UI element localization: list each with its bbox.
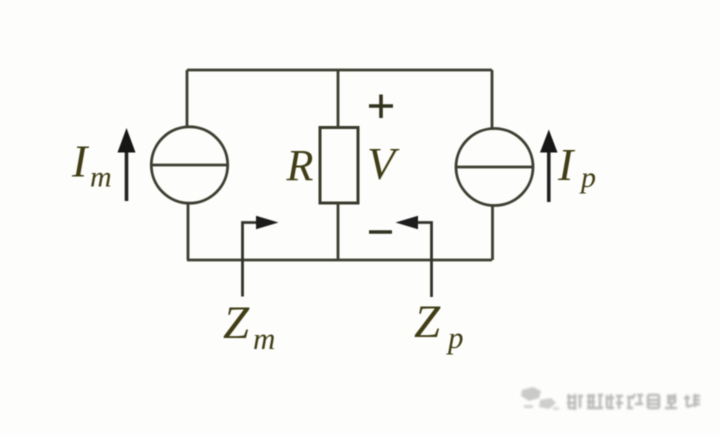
wire middle lower [337, 203, 340, 260]
impedance pointer Zp arrowhead [396, 216, 419, 229]
current source U1 bar [152, 164, 227, 167]
svg-text:R: R [286, 141, 314, 190]
plus sign [369, 95, 393, 119]
current arrow Im shaft [125, 150, 129, 201]
wire right upper [491, 70, 494, 130]
svg-text:m: m [90, 161, 112, 194]
svg-text:V: V [367, 138, 400, 189]
svg-text:I: I [71, 136, 90, 187]
wire left lower [187, 203, 190, 260]
current arrow Ip shaft [547, 152, 551, 202]
impedance pointer Zm line [243, 223, 258, 297]
current source U2 circle [456, 129, 533, 206]
impedance pointer Zm arrowhead [256, 216, 279, 229]
wire middle upper [337, 70, 340, 128]
wire right lower [491, 205, 494, 261]
current arrow Ip head [540, 130, 558, 153]
svg-text:Z: Z [223, 297, 250, 349]
svg-text:I: I [557, 139, 576, 190]
watermark logo blob [521, 387, 559, 410]
minus sign [369, 230, 392, 233]
impedance pointer Zp line [417, 223, 432, 298]
svg-text:m: m [253, 321, 275, 356]
svg-text:p: p [446, 320, 464, 355]
current source U1 circle [151, 127, 227, 203]
resistor R body [320, 128, 358, 204]
svg-text:p: p [579, 161, 596, 194]
wire bottom [187, 259, 492, 262]
wire left upper [186, 70, 189, 128]
svg-text:Z: Z [414, 296, 441, 348]
watermark text strokes [567, 394, 700, 410]
current arrow Im head [118, 128, 136, 153]
current source U2 bar [457, 166, 532, 169]
wire top [187, 69, 492, 72]
